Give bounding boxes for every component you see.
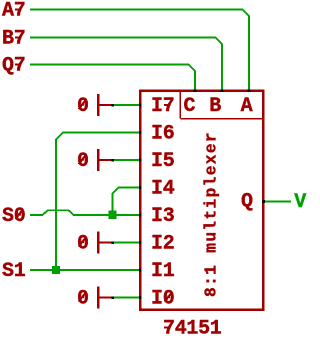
wire constant to I5: [113, 159, 140, 161]
svg-text:V: V: [294, 191, 306, 214]
part number 74151: [163, 318, 222, 341]
constant 0 driving I5: [77, 149, 113, 173]
svg-text:A: A: [241, 95, 253, 118]
pin label C: [184, 95, 196, 118]
svg-text:I4: I4: [151, 178, 175, 201]
svg-text:B7: B7: [2, 28, 25, 51]
wire constant to I7: [113, 104, 140, 106]
pin connection dots: [112, 89, 265, 299]
constant 0 driving I0: [77, 287, 113, 311]
wire constant to I2: [113, 242, 140, 244]
wire A7 to pin A: [30, 10, 249, 91]
pin label I3: [151, 205, 174, 228]
wire S1 to I1: [30, 269, 140, 271]
svg-text:0: 0: [77, 288, 89, 311]
pin label I4: [151, 178, 175, 201]
svg-text:C: C: [184, 95, 196, 118]
pin label A: [241, 95, 253, 118]
pin label I2: [151, 233, 174, 256]
junction S0 node: [108, 211, 116, 219]
wire S0 to I3 with crossover hop: [30, 210, 140, 215]
svg-text:I3: I3: [151, 205, 174, 228]
wire Q7 to pin C: [30, 65, 195, 91]
svg-text:I5: I5: [151, 150, 174, 173]
net label Q7: [2, 55, 25, 78]
pin label I1: [151, 260, 175, 283]
wire junction to I4: [112, 188, 140, 212]
pin label I7: [151, 95, 174, 118]
svg-text:I1: I1: [151, 260, 175, 283]
net label B7: [2, 28, 25, 51]
svg-text:I2: I2: [151, 233, 174, 256]
constant 0 driving I7: [77, 94, 113, 118]
svg-text:S0: S0: [2, 205, 25, 228]
svg-text:A7: A7: [2, 0, 25, 23]
pin label Q: [241, 190, 253, 213]
svg-text:I0: I0: [151, 288, 174, 311]
wire I6 to S1 junction: [56, 133, 140, 271]
svg-text:I7: I7: [151, 95, 174, 118]
svg-text:B: B: [209, 95, 221, 118]
svg-text:0: 0: [77, 233, 89, 256]
net label S1: [2, 260, 26, 283]
svg-text:74151: 74151: [163, 318, 222, 341]
net label A7: [2, 0, 25, 23]
pin label B: [209, 95, 221, 118]
svg-text:I6: I6: [151, 123, 174, 146]
pin label I0: [151, 288, 174, 311]
pin label I5: [151, 150, 174, 173]
svg-text:8:1 multiplexer: 8:1 multiplexer: [203, 131, 221, 297]
pin label I6: [151, 123, 174, 146]
constant 0 driving I2: [77, 232, 113, 256]
svg-text:0: 0: [77, 95, 89, 118]
svg-text:S1: S1: [2, 260, 26, 283]
multiplexer U1 body outline: [140, 91, 263, 310]
wire Q to V: [264, 201, 292, 203]
wire B7 to pin B: [30, 38, 222, 91]
wire constant to I0: [113, 297, 140, 299]
svg-text:Q: Q: [241, 190, 253, 213]
net label S0: [2, 205, 25, 228]
svg-text:0: 0: [77, 150, 89, 173]
junction S1 node: [52, 266, 60, 274]
select box divider (C B A sub-box): [180, 90, 263, 119]
svg-text:Q7: Q7: [2, 55, 25, 78]
chip title 8:1 multiplexer (rotated): [203, 131, 221, 297]
net label V: [294, 191, 306, 214]
